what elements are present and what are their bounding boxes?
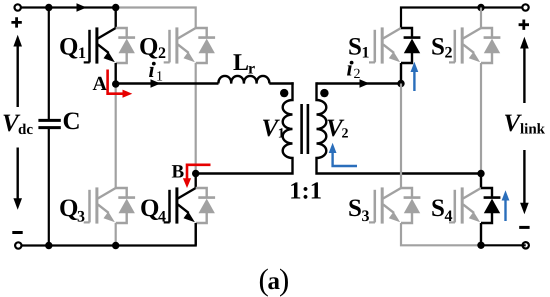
diode of S1 (black, conducting) — [401, 28, 420, 63]
Vdc up arrow — [17, 45, 19, 108]
node dot S1/S3 — [397, 80, 404, 87]
svg-text:S: S — [348, 195, 362, 222]
terminal + (top-left) — [15, 4, 21, 10]
minus sign bottom-right — [519, 226, 529, 229]
plus sign top-right — [519, 20, 529, 30]
svg-text:1:1: 1:1 — [289, 178, 322, 205]
primary polarity dot — [280, 89, 288, 97]
wire: S2 emitter down to node (gray) — [480, 63, 482, 174]
wire: bottom-right rail — [481, 244, 526, 246]
diode of Q1 (gray) — [116, 28, 135, 63]
svg-text:4: 4 — [158, 208, 166, 225]
svg-text:4: 4 — [445, 208, 453, 225]
transformer core — [302, 104, 308, 154]
wire: gray rail to Q2 leg — [116, 8, 196, 29]
diode of S3 (gray) — [401, 188, 420, 223]
svg-text:Q: Q — [59, 195, 78, 222]
svg-text:r: r — [248, 61, 255, 78]
svg-text:C: C — [63, 108, 81, 135]
secondary polarity dot — [320, 89, 328, 97]
transformer primary winding — [196, 82, 293, 173]
red arrow at node A — [108, 70, 123, 94]
terminal + (top-right) — [522, 4, 528, 10]
junction dot bottom rail / C — [45, 242, 52, 249]
wire: secondary to node i2 — [317, 82, 402, 84]
wire: bottom-left rail — [21, 223, 195, 245]
svg-text:1: 1 — [78, 45, 86, 62]
junction dot bottom rail / S4 — [477, 242, 484, 249]
capacitor C branch wire bottom — [48, 129, 50, 246]
diode of S4 (black, conducting) — [481, 188, 500, 223]
wire: node to S4 collector — [480, 174, 482, 189]
wire: S2 top (gray) — [480, 8, 482, 29]
inductor Lr — [218, 76, 269, 84]
wire: S1 emitter to node — [400, 63, 402, 84]
blue arrow at S1 diode — [413, 70, 415, 91]
minus sign bottom-left — [12, 231, 22, 234]
blue arrow at V2 — [333, 152, 357, 167]
capacitor C plates — [38, 120, 60, 127]
current arrow into bridge — [77, 3, 87, 12]
junction dot top rail / S2 — [477, 4, 484, 11]
IGBT Q2 (gray) — [164, 27, 196, 63]
wire: node A down to Q3 (gray) — [115, 84, 117, 189]
diode of Q2 (gray) — [196, 28, 215, 63]
svg-text:dc: dc — [18, 122, 33, 138]
svg-text:2: 2 — [445, 45, 453, 62]
wire: Q1 emitter to node A — [114, 63, 116, 84]
IGBT S2 (gray) — [449, 27, 481, 63]
Vdc down arrow — [17, 148, 19, 201]
svg-text:Q: Q — [59, 34, 78, 61]
wire: S3 to bottom gray rail — [401, 223, 481, 245]
svg-text:2: 2 — [354, 67, 361, 82]
wire: Q3 emitter to bottom rail (gray) — [115, 223, 117, 246]
Vlink down arrow — [523, 150, 525, 205]
svg-text:): ) — [279, 262, 289, 297]
svg-text:A: A — [93, 73, 108, 95]
terminal - (bottom-left) — [15, 242, 21, 248]
wire: inductor to transformer primary — [269, 82, 293, 84]
wire: top-left rail — [21, 6, 116, 8]
wire: Q1 collector — [114, 8, 116, 29]
diode of Q3 (gray) — [116, 188, 135, 223]
capacitor C branch wire top — [48, 8, 50, 120]
svg-text:3: 3 — [362, 208, 370, 225]
wire: node A to inductor — [116, 82, 219, 84]
wire: node B to Q4 collector — [194, 174, 196, 189]
diode of Q4 (gray) — [196, 188, 215, 223]
junction dot bottom rail / Q3 — [112, 242, 119, 249]
svg-text:S: S — [431, 33, 445, 60]
node B dot — [192, 170, 199, 177]
red arrow at node B — [187, 165, 211, 179]
IGBT S4 (gray) — [449, 187, 481, 223]
Vlink up arrow — [523, 47, 525, 104]
transformer secondary winding — [317, 82, 482, 173]
svg-text:B: B — [172, 162, 185, 183]
terminal - (bottom-right) — [523, 242, 529, 248]
wire: top-right rail — [401, 8, 526, 29]
svg-text:ı: ı — [149, 57, 155, 82]
wire: node down to S3 (gray) — [400, 84, 402, 189]
IGBT Q1 — [84, 27, 116, 63]
svg-text:2: 2 — [158, 45, 166, 62]
svg-text:link: link — [520, 122, 546, 138]
node dot S2/S4 — [477, 170, 484, 177]
diode of S2 (gray) — [481, 28, 500, 63]
svg-text:1: 1 — [156, 69, 163, 84]
svg-text:S: S — [431, 195, 445, 222]
wire: S4 emitter to bottom rail — [480, 223, 482, 245]
IGBT Q3 (gray) — [84, 187, 116, 223]
blue arrow at S4 diode — [504, 199, 506, 222]
plus sign top-left — [11, 17, 21, 27]
junction dot top rail / C — [45, 4, 52, 11]
svg-text:L: L — [233, 50, 249, 76]
junction dot top rail / Q1 — [112, 4, 119, 11]
IGBT Q4 — [164, 187, 196, 223]
svg-text:3: 3 — [77, 208, 85, 225]
svg-text:2: 2 — [342, 127, 349, 142]
svg-text:S: S — [348, 33, 362, 60]
i2 current arrow — [360, 79, 370, 88]
IGBT S3 (gray) — [369, 187, 401, 223]
node A dot — [112, 80, 119, 87]
i1 current arrow — [151, 79, 161, 88]
wire: Q2 emitter down to node B (gray) — [195, 63, 197, 174]
wire: Q4 emitter to bottom rail — [194, 223, 196, 246]
svg-text:1: 1 — [278, 127, 285, 142]
IGBT S1 (gray) — [369, 27, 401, 63]
svg-text:1: 1 — [362, 45, 370, 62]
svg-text:Q: Q — [140, 195, 159, 222]
